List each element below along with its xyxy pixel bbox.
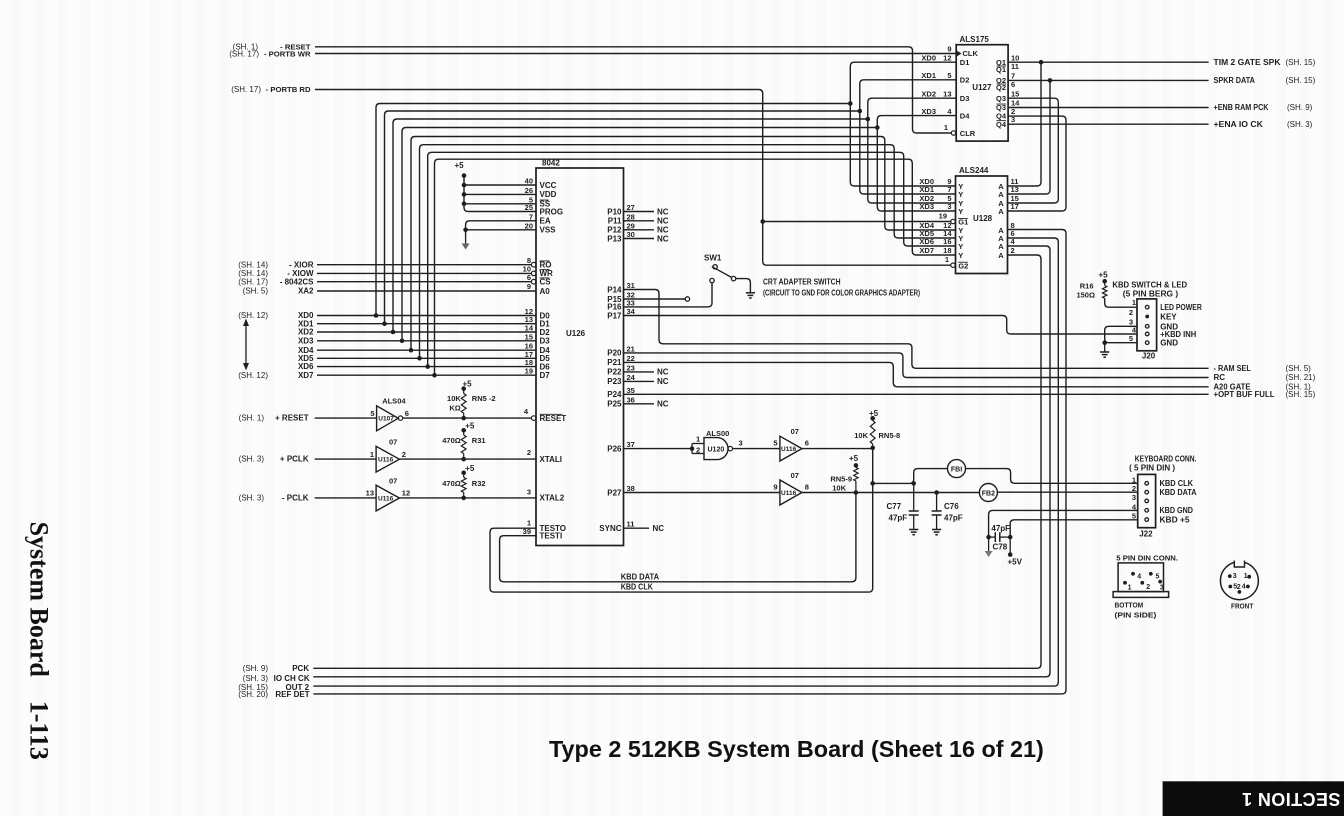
svg-text:NC: NC xyxy=(657,217,669,226)
junction XD5 at data row xyxy=(417,356,422,361)
svg-text:150Ω: 150Ω xyxy=(1076,291,1095,300)
junction KBD CLK at C77 xyxy=(911,481,916,486)
svg-text:(SH. 15): (SH. 15) xyxy=(1286,390,1316,399)
svg-text:11: 11 xyxy=(627,519,635,528)
svg-text:G2: G2 xyxy=(958,261,968,270)
junction XD4 at data row xyxy=(409,348,414,353)
svg-text:2: 2 xyxy=(1132,484,1136,493)
power +5V terminal xyxy=(1008,552,1013,557)
svg-text:+ENB RAM PCK: +ENB RAM PCK xyxy=(1214,103,1269,112)
wire XD3 row to U126 D3 xyxy=(317,340,536,342)
connector J22 body xyxy=(1138,474,1156,527)
connector J20 body xyxy=(1137,299,1157,351)
svg-text:Q4: Q4 xyxy=(996,120,1007,129)
junction RN5-2 pullup xyxy=(461,416,466,421)
wire - XIOW to U126 xyxy=(317,272,531,274)
svg-text:FB2: FB2 xyxy=(982,490,995,497)
svg-text:RO: RO xyxy=(540,261,552,270)
svg-text:12: 12 xyxy=(402,489,410,498)
pin 3 DIN front xyxy=(1228,574,1232,578)
svg-text:XD1: XD1 xyxy=(921,71,936,80)
svg-text:47pF: 47pF xyxy=(889,514,908,523)
svg-text:BOTTOM: BOTTOM xyxy=(1115,601,1144,610)
svg-text:9: 9 xyxy=(947,45,951,54)
junction XD1 at data row xyxy=(382,321,387,326)
svg-text:J22: J22 xyxy=(1139,530,1153,539)
svg-text:P11: P11 xyxy=(608,217,622,226)
svg-text:J20: J20 xyxy=(1142,352,1156,361)
svg-text:1: 1 xyxy=(1244,573,1248,580)
wire VCC xyxy=(464,184,536,186)
svg-text:37: 37 xyxy=(627,440,635,449)
svg-text:6: 6 xyxy=(805,439,809,448)
junction XD7 at data row xyxy=(432,373,437,378)
svg-text:D4: D4 xyxy=(960,111,970,120)
wire P21 to A20 GATE xyxy=(624,362,1209,386)
svg-text:TIM 2 GATE SPK: TIM 2 GATE SPK xyxy=(1214,58,1281,67)
svg-text:+5: +5 xyxy=(465,422,475,431)
svg-text:KBD GND: KBD GND xyxy=(1160,506,1194,515)
svg-text:NC: NC xyxy=(657,368,669,377)
svg-text:5: 5 xyxy=(370,409,374,418)
svg-text:U116: U116 xyxy=(378,457,394,464)
buffer U116 07 pclk xyxy=(376,446,399,472)
contact SW1 P16 side xyxy=(710,278,714,282)
svg-text:14: 14 xyxy=(525,324,534,333)
junction XD2 at data row xyxy=(391,330,396,335)
svg-text:SPKR DATA: SPKR DATA xyxy=(1214,76,1256,85)
svg-text:Y: Y xyxy=(958,207,963,216)
svg-text:6: 6 xyxy=(405,409,409,418)
svg-text:P27: P27 xyxy=(607,488,622,497)
wire Q4 to U128 pin17 xyxy=(1008,116,1067,211)
svg-text:U116: U116 xyxy=(781,446,797,453)
svg-text:CLK: CLK xyxy=(963,49,979,58)
wire P26 net down to KBD CLK xyxy=(872,448,874,484)
svg-text:FBI: FBI xyxy=(951,466,962,473)
svg-text:15: 15 xyxy=(1011,89,1019,98)
svg-text:XD2: XD2 xyxy=(298,328,314,337)
junction RN5-8 xyxy=(870,446,875,451)
svg-text:R32: R32 xyxy=(472,479,486,488)
svg-text:+ENA IO CK: +ENA IO CK xyxy=(1214,120,1264,129)
wire U128 pin11 to Q1 net xyxy=(1008,62,1042,186)
svg-text:470Ω: 470Ω xyxy=(442,436,461,445)
pin 5 DIN bottom xyxy=(1149,572,1153,576)
ground C78 xyxy=(988,537,990,551)
wire XD6 row to U126 D6 xyxy=(317,366,536,368)
wire U128 pin8 to REF DET xyxy=(313,230,1066,694)
section tab box xyxy=(1163,781,1344,816)
wire U116 out to XTAL2 xyxy=(399,497,536,499)
svg-text:2: 2 xyxy=(1129,308,1133,317)
svg-text:(SH. 12): (SH. 12) xyxy=(238,371,268,380)
svg-text:1: 1 xyxy=(370,450,374,459)
junction Q1 to U128 xyxy=(1039,60,1044,65)
svg-text:3: 3 xyxy=(1160,585,1164,592)
svg-text:47pF: 47pF xyxy=(991,524,1010,533)
svg-text:(SH. 14): (SH. 14) xyxy=(238,260,268,269)
svg-text:KBD DATA: KBD DATA xyxy=(1160,488,1197,497)
svg-text:8: 8 xyxy=(527,256,531,265)
svg-text:KBD +5: KBD +5 xyxy=(1160,515,1191,524)
svg-text:29: 29 xyxy=(627,221,635,230)
svg-text:3: 3 xyxy=(739,439,743,448)
svg-text:P10: P10 xyxy=(607,207,622,216)
svg-text:KEYBOARD CONN.: KEYBOARD CONN. xyxy=(1135,455,1197,464)
svg-text:40: 40 xyxy=(525,177,533,186)
svg-text:U107: U107 xyxy=(378,416,394,423)
svg-text:RC: RC xyxy=(1214,373,1226,382)
wire Q3 to U128 pin15 xyxy=(1008,98,1059,203)
svg-text:(SH. 3): (SH. 3) xyxy=(243,674,269,683)
wire C78 to J22 pin5 and +5V xyxy=(1008,535,1013,540)
svg-text:XD0: XD0 xyxy=(921,53,936,62)
svg-text:5: 5 xyxy=(1129,334,1133,343)
svg-text:15: 15 xyxy=(525,332,533,341)
svg-text:2: 2 xyxy=(527,448,531,457)
wire U116 out KBD DATA line xyxy=(802,492,937,494)
junction RN5-9 kbddata xyxy=(854,490,859,495)
svg-text:28: 28 xyxy=(627,212,635,221)
svg-text:(SH. 17): (SH. 17) xyxy=(231,85,261,94)
wire XD6 bus xyxy=(428,152,956,366)
wire +PCLK to U116 xyxy=(315,458,376,460)
ferrite bead FB2 xyxy=(979,484,997,502)
svg-text:3: 3 xyxy=(1132,493,1136,502)
svg-text:( 5 PIN DIN ): ( 5 PIN DIN ) xyxy=(1129,464,1175,473)
svg-text:KBD CLK: KBD CLK xyxy=(621,583,653,592)
svg-text:38: 38 xyxy=(627,484,635,493)
svg-text:20: 20 xyxy=(525,221,533,230)
pin 4 DIN bottom xyxy=(1131,572,1135,576)
svg-text:XD2: XD2 xyxy=(921,89,936,98)
svg-text:+5: +5 xyxy=(1099,271,1109,280)
svg-text:16: 16 xyxy=(943,237,951,246)
junction XD1 bus tee xyxy=(858,109,863,114)
wire SS xyxy=(464,203,536,205)
ic U127 ALS175 body xyxy=(956,45,1008,141)
svg-text:(SH. 9): (SH. 9) xyxy=(243,664,269,673)
svg-text:A: A xyxy=(998,251,1004,260)
wire P16 to switch xyxy=(624,283,713,307)
nand U120 ALS00 xyxy=(690,446,695,451)
svg-text:A: A xyxy=(998,207,1004,216)
svg-text:23: 23 xyxy=(627,363,635,372)
svg-text:C77: C77 xyxy=(887,502,902,511)
svg-text:1: 1 xyxy=(1132,298,1136,307)
capacitor C76 47pF xyxy=(936,493,938,512)
svg-text:ALS00: ALS00 xyxy=(706,429,729,438)
contact SW1 P15 side xyxy=(685,297,689,301)
svg-text:4: 4 xyxy=(1242,584,1246,591)
pin 3 DIN bottom xyxy=(1158,580,1162,584)
junction C76 on KBD DATA xyxy=(934,490,939,495)
svg-text:(SH. 9): (SH. 9) xyxy=(1287,103,1313,112)
svg-text:(SH. 3): (SH. 3) xyxy=(239,494,265,503)
svg-text:35: 35 xyxy=(627,386,635,395)
wire XD7 row to U126 D7 xyxy=(317,374,536,376)
wire U120 out to U116 xyxy=(733,448,780,450)
svg-text:GND: GND xyxy=(1160,339,1178,348)
svg-text:+5V: +5V xyxy=(1008,558,1023,567)
svg-text:13: 13 xyxy=(366,489,374,498)
wire XD0 row to U126 D0 xyxy=(317,315,536,317)
svg-text:19: 19 xyxy=(939,211,947,220)
svg-text:- PORTB WR: - PORTB WR xyxy=(264,50,311,59)
wire P15 to switch contact xyxy=(624,298,686,300)
junction XD3 at data row xyxy=(400,339,405,344)
svg-text:P20: P20 xyxy=(607,349,622,358)
wire XD4 row to U126 D4 xyxy=(317,349,536,351)
svg-text:U128: U128 xyxy=(973,214,993,223)
svg-text:36: 36 xyxy=(627,395,635,404)
svg-text:A0: A0 xyxy=(540,287,551,296)
junction R32 xyxy=(461,496,466,501)
wire P27 to U116 xyxy=(624,492,780,494)
svg-text:NC: NC xyxy=(657,400,669,409)
wire TEST0 loop to KBD CLK xyxy=(490,483,873,592)
svg-text:System Board: System Board xyxy=(25,522,54,678)
svg-text:27: 27 xyxy=(627,203,635,212)
svg-text:PROG: PROG xyxy=(540,207,564,216)
buffer U116 07 kbdclk xyxy=(780,436,802,461)
svg-text:RN5-9: RN5-9 xyxy=(830,475,852,484)
svg-text:3: 3 xyxy=(1233,573,1237,580)
wire Q3bar ENB RAM PCK xyxy=(1008,107,1209,109)
svg-text:18: 18 xyxy=(943,246,951,255)
svg-text:+OPT BUF FULL: +OPT BUF FULL xyxy=(1214,390,1275,399)
svg-text:U116: U116 xyxy=(781,490,797,497)
svg-text:12: 12 xyxy=(943,53,951,62)
svg-text:XTAL2: XTAL2 xyxy=(540,494,565,503)
svg-text:- 8042CS: - 8042CS xyxy=(280,277,314,286)
svg-text:P17: P17 xyxy=(607,311,622,320)
svg-text:VSS: VSS xyxy=(540,226,557,235)
svg-text:17: 17 xyxy=(1011,202,1019,211)
junction XD3 bus tee xyxy=(875,125,880,130)
wire U128 pin13 to Q2 net xyxy=(1008,80,1051,194)
svg-text:07: 07 xyxy=(389,437,397,446)
svg-text:47pF: 47pF xyxy=(944,514,963,523)
svg-text:P14: P14 xyxy=(607,285,622,294)
svg-text:7: 7 xyxy=(529,212,533,221)
wire XD1 row to U126 D1 xyxy=(317,323,536,325)
ferrite bead FB1 xyxy=(948,460,966,478)
svg-text:P22: P22 xyxy=(607,368,622,377)
svg-text:+ RESET: + RESET xyxy=(275,414,309,423)
svg-text:XA2: XA2 xyxy=(298,287,314,296)
svg-text:SW1: SW1 xyxy=(704,254,722,263)
svg-text:RN5 -2: RN5 -2 xyxy=(472,394,496,403)
junction XD2 bus tee xyxy=(866,117,871,122)
ground C76 xyxy=(932,529,941,531)
svg-text:5 PIN DIN CONN.: 5 PIN DIN CONN. xyxy=(1116,554,1178,563)
wire PORTB RD branch to G1 xyxy=(763,221,951,223)
wire - XIOR to U126 xyxy=(317,264,531,266)
wire -PORTB WR to U127 CLK xyxy=(315,53,956,55)
wire Q4bar ENA IO CK xyxy=(1008,123,1209,125)
svg-text:NC: NC xyxy=(657,377,669,386)
svg-text:3: 3 xyxy=(527,488,531,497)
svg-text:11: 11 xyxy=(1011,62,1019,71)
svg-text:Y: Y xyxy=(958,251,963,260)
pin 1 DIN front xyxy=(1247,575,1251,579)
svg-text:(SH. 12): (SH. 12) xyxy=(238,311,268,320)
wire U128 pin4 to IO CH CK xyxy=(313,246,1050,677)
buffer U116 07 kbddata xyxy=(780,480,802,505)
wire SW1 pole to ground xyxy=(736,279,751,293)
svg-text:LED POWER: LED POWER xyxy=(1160,303,1202,312)
wire EA VSS to ground xyxy=(466,221,536,237)
wire FB2 to J22 pin2 xyxy=(997,491,1137,493)
capacitor C78 47pF xyxy=(989,510,1137,537)
svg-text:D7: D7 xyxy=(540,371,551,380)
svg-text:470Ω: 470Ω xyxy=(442,479,461,488)
svg-text:VDD: VDD xyxy=(540,190,557,199)
wire XD0 bus xyxy=(376,104,850,316)
junction Q2 to U128 xyxy=(1048,78,1053,83)
svg-text:6: 6 xyxy=(527,273,531,282)
svg-text:31: 31 xyxy=(627,281,635,290)
svg-text:U126: U126 xyxy=(566,329,586,338)
svg-text:5: 5 xyxy=(947,71,951,80)
svg-text:(PIN SIDE): (PIN SIDE) xyxy=(1115,611,1157,620)
wire FB1 to J22 pin1 xyxy=(966,469,1138,484)
svg-text:8042: 8042 xyxy=(542,159,560,168)
svg-text:P24: P24 xyxy=(607,390,622,399)
svg-text:(SH. 17): (SH. 17) xyxy=(238,277,268,286)
connector DIN front view xyxy=(1220,562,1258,600)
svg-text:D1: D1 xyxy=(960,58,970,67)
svg-text:5: 5 xyxy=(1132,512,1136,521)
svg-text:P21: P21 xyxy=(607,358,622,367)
wire P24 to OPT BUF FULL xyxy=(624,393,1209,395)
bus range arrow xyxy=(245,325,247,364)
svg-text:(SH. 15): (SH. 15) xyxy=(1286,76,1316,85)
svg-text:NC: NC xyxy=(653,524,665,533)
svg-text:9: 9 xyxy=(773,483,777,492)
svg-text:07: 07 xyxy=(389,476,397,485)
svg-text:ALS244: ALS244 xyxy=(959,166,989,175)
svg-text:ALS175: ALS175 xyxy=(960,35,990,44)
svg-text:13: 13 xyxy=(943,89,951,98)
svg-text:XD6: XD6 xyxy=(919,237,934,246)
svg-text:30: 30 xyxy=(627,230,635,239)
wire P20 to RC xyxy=(624,353,1209,378)
svg-text:XD1: XD1 xyxy=(919,185,934,194)
svg-text:Type 2 512KB System Board (Sh: Type 2 512KB System Board (Sheet 16 of 2… xyxy=(549,736,1044,762)
svg-text:(SH. 5): (SH. 5) xyxy=(1286,364,1312,373)
svg-text:3: 3 xyxy=(1011,115,1015,124)
svg-text:XD3: XD3 xyxy=(921,107,936,116)
capacitor C77 47pF xyxy=(913,483,915,511)
svg-text:Q3: Q3 xyxy=(996,94,1006,103)
junction PORTB RD at G1 xyxy=(760,219,765,224)
svg-text:07: 07 xyxy=(791,427,799,436)
svg-text:10K: 10K xyxy=(832,484,846,493)
svg-text:- PORTB RD: - PORTB RD xyxy=(266,85,311,94)
wire J20 pin3 pin5 to ground xyxy=(1105,326,1137,342)
ground SW1 xyxy=(746,292,755,294)
ic U128 ALS244 body xyxy=(956,176,1008,274)
svg-text:1: 1 xyxy=(1128,585,1132,592)
svg-text:Q1: Q1 xyxy=(996,65,1006,74)
svg-text:2: 2 xyxy=(402,450,406,459)
wire TEST1 loop to KBD DATA xyxy=(500,493,856,582)
svg-text:07: 07 xyxy=(791,471,799,480)
svg-text:10K: 10K xyxy=(447,394,461,403)
svg-text:VCC: VCC xyxy=(540,181,557,190)
svg-text:+KBD INH: +KBD INH xyxy=(1160,330,1196,339)
buffer U116 07 pclk2 xyxy=(376,485,399,511)
svg-text:D2: D2 xyxy=(540,328,551,337)
svg-text:9: 9 xyxy=(527,282,531,291)
svg-text:ALS04: ALS04 xyxy=(382,397,406,406)
wire XD7 bus xyxy=(435,159,956,375)
wire XD3 bus xyxy=(402,128,877,341)
svg-text:3: 3 xyxy=(947,202,951,211)
svg-text:+5: +5 xyxy=(849,454,859,463)
svg-text:TESTI: TESTI xyxy=(540,532,563,541)
wire P14 to -RAM SEL xyxy=(624,290,1209,369)
svg-text:(SH. 1): (SH. 1) xyxy=(239,414,265,423)
svg-text:KBD DATA: KBD DATA xyxy=(621,572,660,581)
svg-text:U116: U116 xyxy=(378,495,394,502)
svg-text:SYNC: SYNC xyxy=(599,524,621,533)
svg-text:SECTION 1: SECTION 1 xyxy=(1242,789,1341,809)
ic U126 8042 body xyxy=(536,168,624,546)
svg-text:6: 6 xyxy=(1011,80,1015,89)
svg-text:XD3: XD3 xyxy=(919,202,934,211)
svg-text:KBD CLK: KBD CLK xyxy=(1160,479,1194,488)
wire - 8042CS to U126 xyxy=(317,281,531,283)
wire XD4 bus xyxy=(411,137,956,351)
svg-text:(SH. 17): (SH. 17) xyxy=(229,50,259,59)
junction XD0 at data row xyxy=(374,313,379,318)
svg-text:P25: P25 xyxy=(607,400,622,409)
wire -RESET to U127 CLR xyxy=(315,47,951,133)
svg-text:CLR: CLR xyxy=(960,129,976,138)
ground U126 VSS xyxy=(465,237,467,244)
svg-text:D3: D3 xyxy=(540,337,551,346)
svg-text:D3: D3 xyxy=(960,94,970,103)
svg-text:IO CH CK: IO CH CK xyxy=(274,674,310,683)
svg-text:KEY: KEY xyxy=(1160,313,1177,322)
svg-text:(SH. 15): (SH. 15) xyxy=(1286,58,1316,67)
svg-text:D2: D2 xyxy=(960,76,970,85)
svg-text:(SH. 3): (SH. 3) xyxy=(1287,120,1313,129)
svg-text:NC: NC xyxy=(657,226,669,235)
svg-text:19: 19 xyxy=(525,367,533,376)
svg-text:(SH. 21): (SH. 21) xyxy=(1286,373,1316,382)
svg-text:1-113: 1-113 xyxy=(25,701,54,760)
svg-text:2: 2 xyxy=(1237,584,1241,591)
svg-text:XD7: XD7 xyxy=(298,371,314,380)
wire U107 out to U126 RESET xyxy=(403,417,532,419)
svg-text:RESET: RESET xyxy=(540,414,567,423)
svg-text:21: 21 xyxy=(627,344,635,353)
pin 2 DIN front xyxy=(1238,590,1242,594)
ground C77 xyxy=(909,529,918,531)
pin 5 DIN front xyxy=(1228,585,1232,589)
svg-text:FRONT: FRONT xyxy=(1231,602,1254,611)
svg-text:Y: Y xyxy=(958,190,963,199)
svg-text:R16: R16 xyxy=(1080,282,1094,291)
svg-text:34: 34 xyxy=(627,307,636,316)
svg-text:4: 4 xyxy=(1137,574,1141,581)
svg-text:KBD SWITCH & LED: KBD SWITCH & LED xyxy=(1112,281,1187,290)
